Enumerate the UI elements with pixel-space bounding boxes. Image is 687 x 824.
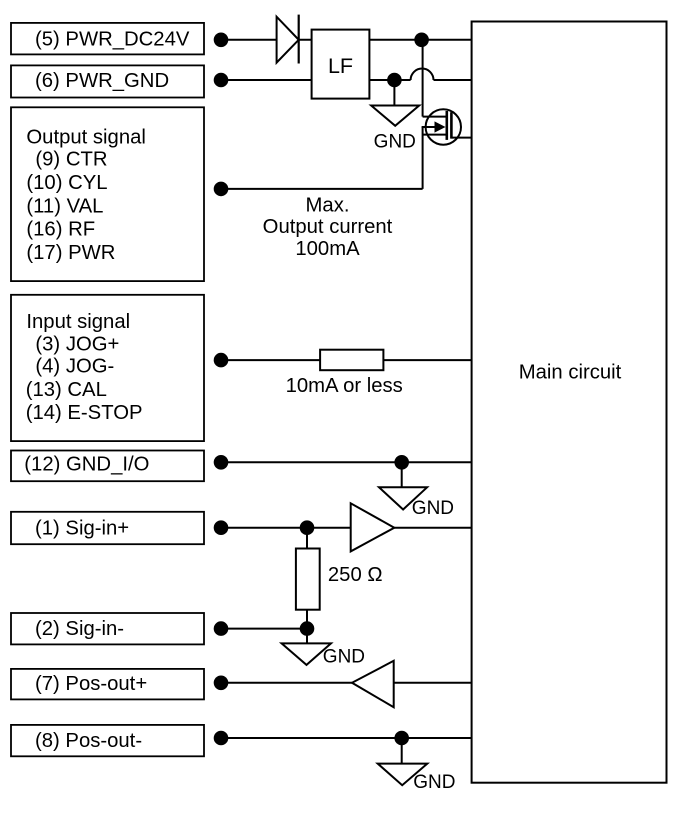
node (8) Pos-out- terminal [214, 731, 229, 746]
wire Pos-out- line [221, 737, 472, 739]
terminal box (12) GND_I/O [11, 451, 204, 482]
svg-text:(16) RF: (16) RF [26, 219, 95, 241]
ground GND2 [379, 462, 454, 519]
svg-text:(12) GND_I/O: (12) GND_I/O [24, 454, 149, 476]
svg-text:(11) VAL: (11) VAL [26, 195, 103, 217]
wire PWR_DC24V line [221, 39, 472, 41]
svg-text:(13) CAL: (13) CAL [26, 379, 107, 401]
wire hop over PWR_GND [411, 69, 434, 80]
svg-text:(3) JOG+: (3) JOG+ [35, 333, 119, 355]
terminal box (7) Pos-out+ [11, 669, 204, 700]
svg-text:10mA or less: 10mA or less [286, 375, 403, 397]
terminal box (1) Sig-in+ [11, 512, 204, 544]
wire MOSFET gate lead [451, 137, 471, 139]
node (6) PWR_GND terminal [214, 73, 229, 88]
wire Sig-in+ line [221, 527, 472, 529]
svg-text:(17) PWR: (17) PWR [26, 242, 115, 264]
node junction on PWR_GND [387, 73, 402, 88]
svg-text:GND: GND [413, 772, 455, 793]
svg-text:GND: GND [374, 132, 416, 153]
line filter LF [312, 30, 370, 99]
resistor R2 250 ohm [296, 528, 383, 629]
terminal box (6) PWR_GND [11, 65, 204, 97]
terminal box (8) Pos-out- [11, 725, 204, 756]
node input signal terminal [214, 353, 229, 368]
node (7) Pos-out+ terminal [214, 676, 229, 691]
svg-text:Main circuit: Main circuit [519, 362, 622, 384]
svg-text:(4) JOG-: (4) JOG- [35, 356, 114, 378]
svg-text:(10) CYL: (10) CYL [26, 172, 107, 194]
svg-text:LF: LF [328, 54, 353, 78]
svg-text:(14) E-STOP: (14) E-STOP [26, 402, 143, 424]
svg-text:Input signal: Input signal [26, 311, 130, 333]
svg-text:(8) Pos-out-: (8) Pos-out- [35, 730, 142, 752]
svg-text:(2) Sig-in-: (2) Sig-in- [35, 618, 124, 640]
ground GND4 [378, 738, 456, 793]
svg-text:250 Ω: 250 Ω [328, 564, 383, 586]
wire MOSFET source to output rail [422, 127, 424, 189]
node (12) GND_I/O terminal [214, 455, 229, 470]
op-amp U1 input buffer [351, 503, 395, 551]
main circuit block [472, 22, 667, 783]
ground GND3 [282, 629, 365, 668]
terminal box (2) Sig-in- [11, 613, 204, 644]
node (2) Sig-in- terminal [214, 621, 229, 636]
svg-text:(5) PWR_DC24V: (5) PWR_DC24V [35, 29, 190, 51]
svg-text:Max.: Max. [306, 195, 350, 217]
svg-text:(1) Sig-in+: (1) Sig-in+ [35, 517, 129, 539]
svg-text:GND: GND [412, 498, 454, 519]
wire input signal line [221, 359, 472, 361]
svg-text:Output signal: Output signal [26, 127, 146, 149]
svg-text:100mA: 100mA [295, 238, 360, 260]
wire GND_I/O line [221, 461, 472, 463]
node junction on 24V rail [414, 33, 429, 48]
svg-text:Output current: Output current [263, 216, 393, 238]
node output signal terminal [214, 182, 229, 197]
svg-text:(6) PWR_GND: (6) PWR_GND [35, 70, 169, 92]
wire 24V rail to MOSFET drain [422, 40, 424, 117]
node junction on Sig-in+ [300, 520, 315, 535]
label Max. Output current 100mA [263, 195, 393, 260]
resistor R1 input series [320, 350, 383, 371]
node (1) Sig-in+ terminal [214, 520, 229, 535]
node junction on Pos-out- [394, 731, 409, 746]
terminal box Output signal [11, 107, 204, 281]
wire output signal line [221, 188, 423, 190]
node junction on GND_I/O [394, 455, 409, 470]
wire PWR_GND line [221, 79, 472, 81]
ground GND1 [371, 80, 419, 153]
svg-text:GND: GND [323, 647, 365, 668]
transistor Q1 MOSFET [422, 109, 461, 144]
svg-text:(7) Pos-out+: (7) Pos-out+ [35, 673, 147, 695]
terminal box Input signal [11, 295, 204, 441]
node (5) PWR_DC24V terminal [214, 33, 229, 48]
terminal box (5) PWR_DC24V [11, 23, 204, 55]
diode D1 [277, 15, 299, 64]
wire Sig-in- line [221, 628, 307, 630]
node junction on Sig-in- [300, 621, 315, 636]
svg-text:(9) CTR: (9) CTR [35, 149, 107, 171]
op-amp U2 output buffer [352, 661, 394, 707]
wire Pos-out+ line [221, 682, 472, 684]
